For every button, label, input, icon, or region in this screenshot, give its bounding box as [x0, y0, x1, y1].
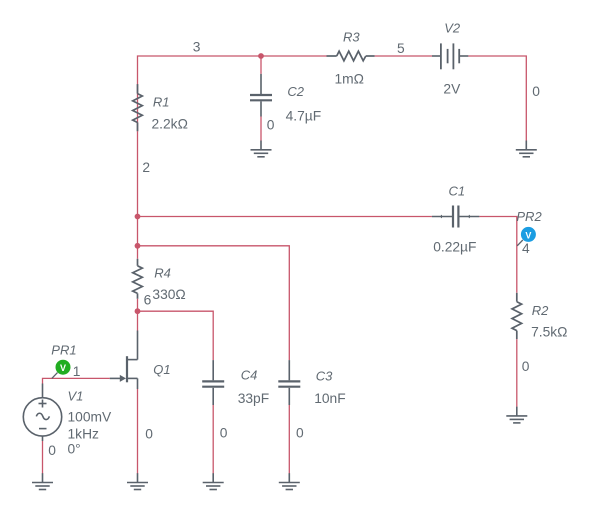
source V1 — [23, 384, 61, 442]
svg-text:4.7µF: 4.7µF — [286, 108, 322, 123]
wire node2 vertical — [137, 131, 139, 258]
ground Q1 — [127, 473, 148, 489]
svg-text:C4: C4 — [241, 368, 258, 383]
svg-text:C3: C3 — [316, 368, 333, 383]
svg-text:7.5kΩ: 7.5kΩ — [531, 324, 567, 339]
svg-text:R4: R4 — [154, 265, 171, 280]
svg-text:R2: R2 — [532, 303, 549, 318]
svg-text:0.22µF: 0.22µF — [433, 240, 476, 255]
svg-text:V2: V2 — [444, 21, 461, 36]
svg-text:0: 0 — [145, 426, 153, 441]
wire to C4 — [138, 311, 214, 360]
svg-text:R3: R3 — [343, 30, 360, 45]
svg-text:0: 0 — [48, 443, 56, 458]
svg-text:33pF: 33pF — [238, 391, 269, 406]
wire top from R1 to R3 — [138, 56, 327, 131]
svg-text:0: 0 — [296, 426, 304, 441]
svg-text:1kHz: 1kHz — [68, 427, 100, 442]
junction dot at C3 branch — [135, 243, 141, 249]
svg-text:C2: C2 — [287, 84, 304, 99]
wire V1 to Q1 gate — [43, 378, 110, 383]
wire C4 to ground — [212, 405, 214, 474]
wire to C1 — [138, 216, 432, 218]
junction dot node 3 — [258, 53, 264, 59]
wire C3 to ground — [288, 405, 290, 474]
wire V2 to right ground — [468, 56, 526, 141]
svg-text:1mΩ: 1mΩ — [335, 71, 364, 86]
svg-text:330Ω: 330Ω — [152, 287, 185, 302]
wire C2 branch top — [260, 56, 262, 74]
svg-text:10nF: 10nF — [314, 391, 345, 406]
ground V1 — [32, 473, 53, 489]
svg-text:2: 2 — [142, 160, 150, 175]
ground R2 — [506, 407, 527, 423]
svg-text:2.2kΩ: 2.2kΩ — [152, 117, 188, 132]
ground C2 — [251, 141, 272, 157]
svg-text:0: 0 — [532, 84, 540, 99]
junction dot at R4 bottom — [135, 308, 141, 314]
svg-text:Q1: Q1 — [153, 362, 170, 377]
svg-text:V: V — [60, 363, 66, 373]
wire R2 to ground — [516, 339, 518, 407]
svg-text:2V: 2V — [443, 82, 461, 97]
wire R3 to V2 — [375, 55, 432, 57]
transistor Q1 — [110, 331, 138, 390]
battery V2 — [432, 43, 468, 69]
svg-text:100mV: 100mV — [68, 410, 113, 425]
wire C2 to ground — [260, 117, 262, 141]
resistor R1 — [133, 84, 143, 131]
wire to C3 — [138, 246, 290, 360]
resistor R4 — [133, 259, 143, 299]
wire C1 to R2 — [479, 217, 516, 293]
resistor R3 — [327, 51, 375, 61]
probe PR1 — [52, 360, 71, 379]
capacitor C2 — [250, 74, 272, 117]
ground C3 — [279, 473, 300, 489]
ground C4 — [203, 473, 224, 489]
svg-text:0: 0 — [267, 117, 275, 132]
svg-text:0°: 0° — [68, 442, 81, 457]
svg-text:6: 6 — [144, 292, 152, 307]
resistor R2 — [512, 293, 522, 339]
capacitor C1 — [432, 206, 480, 228]
svg-text:3: 3 — [193, 40, 201, 55]
svg-text:1: 1 — [73, 364, 81, 379]
svg-text:4: 4 — [522, 241, 530, 256]
svg-text:0: 0 — [220, 426, 228, 441]
svg-text:C1: C1 — [449, 183, 466, 198]
capacitor C4 — [202, 360, 224, 405]
svg-text:0: 0 — [522, 359, 530, 374]
wire R4 to junction — [137, 299, 139, 331]
ground V2 right — [516, 141, 537, 157]
junction dot at C1 branch — [135, 214, 141, 220]
capacitor C3 — [278, 360, 300, 405]
svg-text:V: V — [525, 230, 531, 240]
probe PR2 — [517, 227, 536, 246]
svg-text:R1: R1 — [153, 94, 170, 109]
wire V1 to ground — [42, 441, 44, 474]
svg-text:PR2: PR2 — [516, 209, 542, 224]
svg-text:PR1: PR1 — [51, 342, 76, 357]
svg-text:V1: V1 — [68, 388, 84, 403]
wire Q1 emitter to ground — [137, 389, 139, 474]
svg-text:5: 5 — [397, 41, 405, 56]
